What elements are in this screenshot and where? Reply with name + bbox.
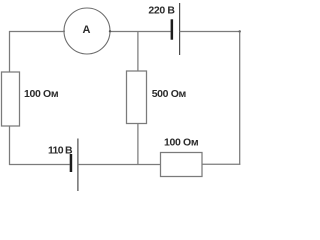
wire top-left horizontal <box>9 31 65 33</box>
resistor R3 body <box>161 153 203 177</box>
svg-text:A: A <box>83 24 91 36</box>
node junction circle-left <box>63 30 65 32</box>
wire circle-right to battery <box>110 31 171 33</box>
wire bottom-left horizontal <box>9 164 70 166</box>
svg-text:500 Ом: 500 Ом <box>152 88 187 100</box>
svg-text:110 В: 110 В <box>48 145 73 157</box>
node junction circle-right <box>109 30 111 32</box>
battery B1 negative plate (short thick) <box>171 19 174 39</box>
wire left side vertical upper <box>9 31 11 73</box>
wire battery to resistor R3 <box>78 164 161 166</box>
wire left side vertical lower <box>9 126 11 165</box>
wire right side vertical <box>239 32 241 165</box>
svg-text:220 В: 220 В <box>148 5 175 17</box>
node top-right corner <box>239 30 241 32</box>
ammeter U1 circle <box>64 8 110 54</box>
battery B2 negative plate (short thick) <box>70 154 73 172</box>
wire middle branch vertical bottom <box>137 124 139 166</box>
wire resistor R3 to bottom-right corner <box>202 163 240 165</box>
battery B2 positive plate (long thin) <box>77 139 79 192</box>
svg-text:100 Ом: 100 Ом <box>24 88 59 100</box>
resistor R1 body <box>2 72 20 126</box>
resistor R2 body <box>127 71 147 124</box>
wire battery to top-right corner <box>180 31 241 33</box>
battery B1 positive plate (long thin) <box>179 3 181 55</box>
svg-text:100 Ом: 100 Ом <box>164 137 199 149</box>
wire middle branch vertical top <box>137 32 139 72</box>
